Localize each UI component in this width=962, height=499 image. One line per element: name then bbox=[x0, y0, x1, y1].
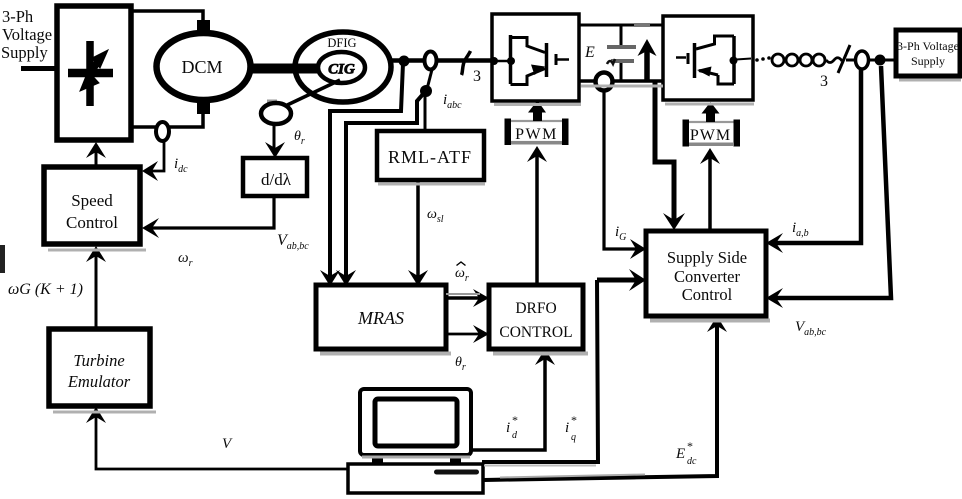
svg-text:DFIG: DFIG bbox=[327, 36, 356, 50]
monitor screen bbox=[375, 399, 457, 446]
wire V from computer base to Turbine Emulator bbox=[96, 413, 348, 469]
svg-text:Turbine: Turbine bbox=[73, 351, 124, 370]
svg-text:Supply: Supply bbox=[1, 43, 49, 62]
rectifier bridge box (controlled converter) bbox=[57, 6, 131, 140]
rectifier symbol (crossed bars with diagonal arrow) bbox=[68, 41, 113, 106]
svg-text:E: E bbox=[584, 44, 595, 61]
wire d/d-lambda to Speed Control bbox=[152, 196, 274, 228]
arrow MRAS to DRFO (omega_r hat) bbox=[446, 296, 482, 300]
computer monitor bbox=[360, 389, 471, 455]
wire i_G to Supply Side Control bbox=[604, 90, 639, 249]
svg-text:q: q bbox=[571, 432, 576, 443]
scan artifact shadows bbox=[48, 79, 961, 414]
DC link bottom rail bbox=[579, 79, 663, 83]
svg-text:PWM: PWM bbox=[690, 127, 731, 144]
wire i_abc to RML-ATF bbox=[424, 96, 427, 131]
thick arrow PWM to rotor converter bbox=[533, 109, 542, 121]
svg-text:3-Ph Voltage: 3-Ph Voltage bbox=[897, 39, 959, 53]
wire supply to rectifier bbox=[21, 66, 57, 71]
E measurement arrow (up) bbox=[644, 50, 650, 81]
DC link top rail bbox=[579, 24, 663, 27]
svg-text:CONTROL: CONTROL bbox=[499, 324, 572, 341]
DCM top terminal bbox=[197, 20, 210, 33]
current sensor i_G on DC bottom rail bbox=[596, 73, 613, 91]
dotted wire from grid converter bbox=[755, 56, 771, 62]
monitor feet bbox=[372, 456, 383, 464]
scan artifact: left edge blob bbox=[0, 245, 5, 273]
rotor side converter box bbox=[492, 14, 579, 101]
arrow Speed Control to rectifier bbox=[95, 148, 98, 167]
PWM box (rotor side) bbox=[505, 119, 569, 146]
wire i_abc to MRAS bbox=[346, 93, 424, 280]
junction node (stator tap) bbox=[399, 56, 410, 67]
svg-text:*: * bbox=[571, 413, 577, 427]
scan tick above encoder bbox=[267, 100, 277, 104]
svg-text:Speed: Speed bbox=[71, 191, 113, 210]
wire E measurement down to Supply Side Control bbox=[655, 81, 674, 223]
Supply Side Converter Control box bbox=[646, 231, 766, 316]
wire stator tap to MRAS bbox=[330, 63, 403, 280]
svg-text:DRFO: DRFO bbox=[515, 300, 556, 317]
svg-text:3: 3 bbox=[820, 73, 828, 90]
wire DCM bottom to rectifier bbox=[131, 114, 203, 127]
DRFO CONTROL box bbox=[489, 285, 583, 349]
svg-text:i: i bbox=[565, 420, 569, 436]
DC link capacitor bbox=[607, 25, 636, 81]
svg-text:RML-ATF: RML-ATF bbox=[388, 147, 472, 167]
svg-text:Control: Control bbox=[682, 285, 733, 304]
svg-text:ωG (K + 1): ωG (K + 1) bbox=[8, 281, 83, 298]
wire E*_dc from computer to Supply Side Control bbox=[484, 324, 717, 480]
svg-text:Voltage: Voltage bbox=[2, 25, 52, 44]
wire to grid supply box bbox=[846, 59, 896, 62]
current sensor on stator wire bbox=[425, 52, 437, 70]
svg-text:DCM: DCM bbox=[181, 57, 222, 77]
wire V_ab,bc from grid node to Supply Side Control bbox=[774, 66, 891, 298]
svg-text:dc: dc bbox=[687, 456, 697, 467]
arrow MRAS to DRFO (theta_r) bbox=[446, 333, 482, 336]
svg-text:Emulator: Emulator bbox=[67, 372, 131, 391]
svg-text:Control: Control bbox=[66, 213, 118, 232]
DCM bottom terminal bbox=[197, 101, 210, 114]
current sensor i_dc (ellipse on wire) bbox=[156, 122, 169, 141]
base slot bbox=[434, 470, 479, 475]
svg-text:3-Ph: 3-Ph bbox=[2, 7, 34, 26]
svg-text:*: * bbox=[687, 439, 693, 453]
DCM machine ellipse bbox=[157, 33, 251, 100]
wire rectifier top to DCM bbox=[131, 11, 203, 24]
grid side converter box bbox=[663, 16, 753, 100]
svg-text:PWM: PWM bbox=[515, 126, 558, 143]
DFIG outer ellipse bbox=[295, 32, 391, 102]
svg-text:MRAS: MRAS bbox=[357, 308, 404, 328]
arrow encoder to d/d-lambda bbox=[273, 124, 276, 150]
MRAS box bbox=[316, 285, 446, 349]
IGBT symbol (grid converter) bbox=[676, 36, 751, 84]
IGBT symbol (rotor converter) bbox=[490, 35, 569, 85]
svg-text:E: E bbox=[675, 446, 685, 462]
wire i_q* computer to Supply Side Converter Control bbox=[482, 280, 598, 462]
wire i_a,b from grid sensor to Supply Side Control bbox=[774, 70, 861, 243]
DFIG inner ellipse (CIG) bbox=[318, 52, 365, 83]
computer base bbox=[348, 464, 483, 493]
3-phase slash (grid) bbox=[838, 45, 850, 73]
svg-text:Converter: Converter bbox=[674, 267, 740, 286]
wire i_dc to Speed Control bbox=[152, 141, 164, 171]
svg-text:d/dλ: d/dλ bbox=[261, 170, 292, 189]
grid current sensor bbox=[856, 51, 869, 69]
encoder stem from DFIG bbox=[283, 80, 340, 107]
label 3-Ph Voltage Supply (top-left text) bbox=[1, 7, 52, 62]
Turbine Emulator box bbox=[49, 329, 150, 406]
svg-text:*: * bbox=[512, 413, 518, 427]
stator wire DFIG to converter bbox=[390, 58, 492, 63]
d/d-lambda box bbox=[243, 158, 307, 196]
thick arrow PWM to grid converter bbox=[706, 111, 715, 122]
wire Supply Side Control to grid PWM bbox=[708, 158, 712, 231]
3-phase slash bbox=[462, 51, 471, 75]
RML-ATF box bbox=[377, 131, 484, 180]
wire omega_sl RML-ATF to MRAS bbox=[416, 180, 420, 280]
svg-text:Supply: Supply bbox=[911, 54, 945, 68]
3-Ph Voltage Supply box (grid) bbox=[896, 30, 960, 76]
shaft DCM to DFIG bbox=[248, 64, 322, 74]
node i_abc bbox=[420, 85, 432, 97]
svg-text:CIG: CIG bbox=[328, 62, 355, 78]
svg-text:Supply Side: Supply Side bbox=[667, 248, 747, 267]
inductor coils bbox=[772, 54, 842, 66]
encoder ellipse bbox=[261, 103, 291, 124]
arrow Turbine Emulator to Speed Control bbox=[95, 252, 98, 327]
svg-text:i: i bbox=[506, 420, 510, 436]
PWM box (grid side) bbox=[683, 120, 741, 147]
wire DRFO to left PWM bbox=[535, 156, 539, 285]
grid node bbox=[875, 55, 886, 66]
Speed Control box bbox=[44, 167, 140, 244]
wire i_d* computer to DRFO bbox=[471, 357, 545, 450]
svg-text:3: 3 bbox=[473, 68, 481, 85]
